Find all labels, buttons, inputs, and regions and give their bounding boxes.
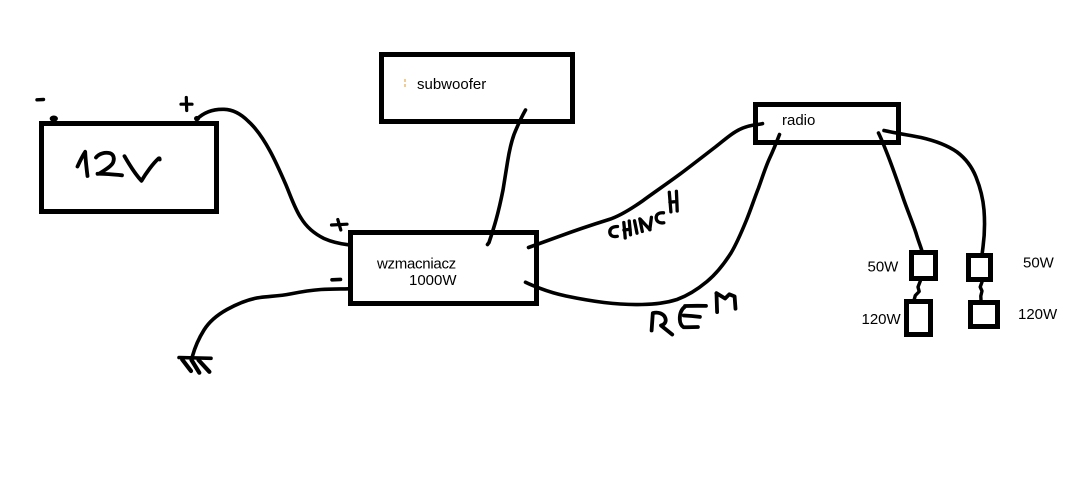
svg-text:50W: 50W	[868, 259, 900, 276]
battery plus terminal dot	[194, 116, 200, 121]
battery minus terminal label	[37, 98, 44, 102]
battery minus terminal dot	[50, 116, 58, 122]
svg-text:1000W: 1000W	[409, 272, 457, 289]
plus label at amplifier	[332, 220, 348, 231]
amplifier U1 box	[351, 233, 537, 304]
wire subwoofer to amplifier	[488, 110, 526, 245]
wire amplifier to radio (CHINCH signal)	[529, 124, 763, 248]
CHINCH label (handwritten)	[610, 191, 677, 238]
svg-text:subwoofer: subwoofer	[417, 76, 486, 93]
right speaker 50W box	[969, 256, 991, 280]
battery label 12V (handwritten)	[78, 152, 160, 181]
ground symbol	[179, 358, 211, 373]
battery B1 12V box	[42, 124, 217, 212]
left speaker 120W box	[907, 302, 931, 335]
svg-text:120W: 120W	[1018, 306, 1058, 323]
radio box	[756, 105, 899, 143]
wire radio to left 50W speaker	[879, 133, 922, 251]
svg-text:radio: radio	[782, 112, 815, 129]
wire radio to amplifier (REM remote)	[526, 135, 780, 305]
subwoofer box	[382, 55, 573, 122]
wire left 50W to left 120W	[914, 281, 920, 300]
battery plus terminal label	[181, 98, 192, 111]
svg-text:wzmacniacz: wzmacniacz	[376, 256, 456, 273]
REM label (handwritten)	[652, 293, 736, 334]
svg-text:50W: 50W	[1023, 255, 1055, 272]
stray orange cursor mark	[404, 79, 406, 87]
minus label at amplifier	[332, 278, 341, 282]
wire radio to right 50W speaker	[884, 131, 985, 253]
wire right 50W to right 120W	[980, 282, 982, 300]
wire amplifier minus to ground	[193, 289, 349, 356]
wire battery plus to amplifier plus input	[197, 109, 349, 245]
svg-text:120W: 120W	[862, 311, 902, 328]
right speaker 120W box	[971, 303, 998, 327]
left speaker 50W box	[912, 253, 936, 279]
